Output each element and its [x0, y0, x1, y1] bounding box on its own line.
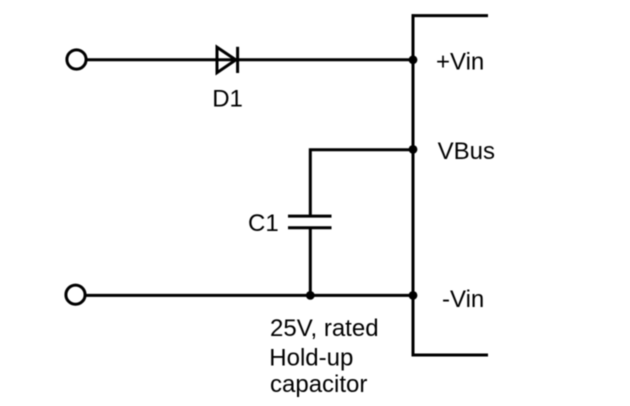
- wire bottom-right stub: [412, 354, 488, 357]
- svg-text:C1: C1: [248, 210, 279, 237]
- bus vertical wire: [412, 14, 415, 356]
- svg-text:-Vin: -Vin: [442, 286, 484, 313]
- capacitor C1: [288, 216, 332, 228]
- node capacitor/-Vin junction dot: [306, 291, 315, 300]
- svg-text:Hold-up: Hold-up: [269, 344, 353, 371]
- wire bottom (-Vin rail from terminal to bus): [85, 294, 413, 297]
- svg-text:capacitor: capacitor: [270, 371, 367, 398]
- wire top-right stub: [412, 14, 488, 17]
- svg-text:+Vin: +Vin: [436, 48, 484, 75]
- node +Vin junction dot: [409, 55, 418, 64]
- wire capacitor bottom lead: [309, 228, 312, 296]
- node -Vin junction dot: [409, 291, 418, 300]
- svg-text:VBus: VBus: [438, 138, 495, 165]
- diode D1: [217, 47, 238, 73]
- wire VBus horizontal: [310, 150, 413, 216]
- terminal circle bottom-left: [66, 285, 85, 304]
- node VBus junction dot: [409, 145, 418, 154]
- svg-text:25V, rated: 25V, rated: [270, 315, 379, 342]
- terminal circle top-left: [67, 50, 86, 69]
- wire top (+Vin rail from terminal to bus): [87, 58, 413, 61]
- svg-text:D1: D1: [212, 86, 243, 113]
